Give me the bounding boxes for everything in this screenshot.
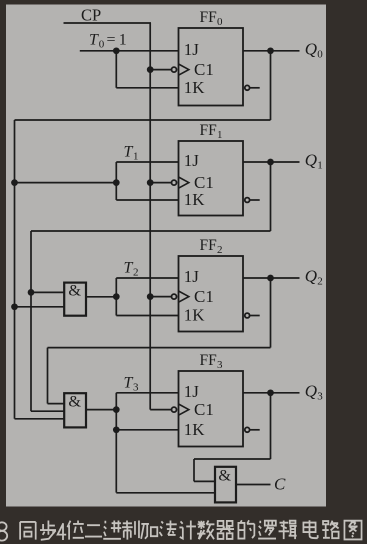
caption glyph 数: [197, 521, 214, 540]
wire AND1 input upper: [31, 291, 64, 293]
caption glyph 电: [303, 520, 317, 538]
svg-text:1J: 1J: [184, 40, 200, 59]
flip-flop FF3 box: [179, 371, 244, 447]
flip-flop FF0 box: [179, 28, 244, 106]
svg-text:0: 0: [99, 39, 105, 51]
wire FF1 Q output: [243, 161, 300, 163]
FF2 clock inversion bubble: [172, 294, 177, 299]
caption glyph 路: [322, 521, 338, 538]
wire C-gate output: [236, 484, 271, 486]
wire T0 input to FF0 1J: [80, 50, 179, 52]
svg-text:1J: 1J: [184, 267, 200, 286]
wire AND2 input top: [48, 403, 65, 405]
wire FF3 1J input: [116, 392, 178, 394]
FF0 clock inversion bubble: [172, 67, 177, 72]
wire FF2 feedback horizontal: [48, 347, 271, 349]
wire AND1 output to T2: [86, 296, 116, 298]
wire FF2 Q feedback vertical: [270, 278, 272, 348]
caption glyph 二: [85, 525, 102, 536]
wire FF0 1K input: [116, 87, 178, 89]
FF0 Qbar bubble: [245, 85, 250, 90]
node T2 branch: [113, 293, 120, 300]
node CP-FF0: [147, 66, 154, 73]
FF1 clock edge triangle: [179, 177, 189, 188]
node Q3 output: [267, 389, 274, 396]
wire C-gate input upper: [194, 480, 215, 482]
svg-text:1J: 1J: [184, 151, 200, 170]
caption digit 4: [58, 523, 67, 540]
FF3 clock inversion bubble: [172, 407, 177, 412]
svg-text:Q: Q: [305, 151, 317, 170]
wire FF2 Qbar stub: [250, 315, 260, 317]
svg-text:0: 0: [217, 16, 223, 28]
wire FF0 J-K connector: [115, 51, 117, 88]
svg-text:Q: Q: [305, 40, 317, 59]
svg-text:2: 2: [133, 267, 139, 279]
AND gate G2 box: [64, 393, 86, 427]
caption glyph 逻: [258, 521, 276, 539]
wire FF1 1K input: [116, 199, 178, 201]
wire FF3 1K input: [116, 429, 178, 431]
svg-text:C1: C1: [194, 287, 214, 306]
wire FF1 1J input: [116, 161, 178, 163]
svg-text:T: T: [89, 32, 99, 49]
node bus1-AND1: [28, 289, 35, 296]
wire FF2 J-K connector: [115, 278, 117, 316]
FF1 clock inversion bubble: [172, 180, 177, 185]
wire CP stub to FF0 clock: [150, 69, 171, 71]
wire T1 feed: [15, 182, 117, 184]
wire FF0 Qbar stub: [250, 87, 260, 89]
svg-text:1J: 1J: [184, 382, 200, 401]
wire FF0 Q feedback vertical: [270, 51, 272, 120]
FF2 clock edge triangle: [179, 291, 189, 302]
node T1 branch: [113, 179, 120, 186]
svg-text:= 1: = 1: [107, 32, 127, 49]
caption glyph 法: [159, 521, 176, 536]
node CP-FF1: [147, 179, 154, 186]
wire AND2 output to T3: [86, 409, 116, 411]
node Q1 output: [267, 159, 274, 166]
caption glyph 器: [217, 521, 234, 539]
caption glyph 图: [344, 521, 361, 540]
wire AND2 input middle: [31, 410, 64, 412]
node bus-T1: [11, 179, 18, 186]
svg-text:T: T: [124, 144, 134, 161]
caption glyph 进: [103, 521, 121, 539]
wire FF3 T connector vertical: [115, 393, 117, 493]
wire FF3 feedback drop: [193, 459, 195, 481]
caption glyph 制: [122, 521, 139, 540]
wire FF1 Qbar stub: [250, 199, 260, 201]
wire CP stub to FF2 clock: [150, 296, 171, 298]
wire FF0 Q output: [243, 50, 300, 52]
svg-text:T: T: [124, 260, 134, 277]
caption glyph 辑: [279, 521, 297, 540]
svg-text:0: 0: [317, 49, 323, 61]
svg-text:T: T: [124, 374, 134, 391]
wire CP horizontal: [64, 22, 152, 24]
wire FF2 1K input: [116, 315, 178, 317]
svg-text:&: &: [218, 466, 231, 485]
caption glyph 位: [67, 521, 84, 540]
svg-text:3: 3: [317, 391, 323, 403]
node T3 branch: [113, 406, 120, 413]
node T0 branch: [113, 47, 120, 54]
svg-text:1: 1: [133, 151, 139, 163]
svg-text:1: 1: [217, 129, 223, 141]
svg-text:3: 3: [217, 359, 223, 371]
wire FF3 Q output: [243, 392, 300, 394]
svg-text:Q: Q: [305, 267, 317, 286]
caption strip: [20, 520, 361, 539]
caption digit 8: [0, 522, 7, 540]
svg-text:1K: 1K: [184, 78, 206, 97]
svg-text:&: &: [68, 281, 81, 300]
svg-text:2: 2: [317, 276, 323, 288]
svg-text:FF: FF: [200, 9, 218, 26]
wire Q0 left bus: [14, 120, 16, 419]
svg-text:1K: 1K: [184, 306, 206, 325]
node Q0 output: [267, 47, 274, 54]
caption glyph 的: [238, 520, 254, 538]
wire FF3 feedback horizontal: [194, 458, 271, 460]
wire Q1 left bus: [30, 231, 32, 411]
node CP-FF2: [147, 293, 154, 300]
caption glyph 加: [141, 524, 157, 539]
svg-text:FF: FF: [200, 352, 218, 369]
AND gate G3 box (carry): [215, 467, 236, 503]
wire CP vertical bus: [149, 23, 151, 410]
wire FF1 Q feedback vertical: [270, 162, 272, 231]
svg-text:CP: CP: [81, 5, 101, 24]
AND gate G1 box: [64, 283, 86, 316]
svg-text:C1: C1: [194, 60, 214, 79]
node bus0-AND1: [11, 303, 18, 310]
wire CP stub to FF1 clock: [150, 182, 171, 184]
caption glyph 计: [179, 521, 196, 540]
wire FF1 feedback horizontal: [31, 230, 271, 232]
svg-text:1K: 1K: [184, 190, 206, 209]
svg-text:Q: Q: [305, 382, 317, 401]
wire Q2 left bus: [47, 348, 49, 404]
FF1 Qbar bubble: [245, 198, 250, 203]
svg-text:C: C: [274, 474, 286, 493]
FF3 Qbar bubble: [245, 427, 250, 432]
wire FF2 Q output: [243, 277, 300, 279]
caption glyph 步: [40, 521, 56, 540]
wire FF2 1J input: [116, 277, 178, 279]
svg-text:FF: FF: [200, 237, 218, 254]
svg-text:1K: 1K: [184, 420, 206, 439]
FF0 clock edge triangle: [179, 64, 189, 75]
svg-text:FF: FF: [200, 122, 218, 139]
flip-flop FF1 box: [179, 141, 244, 216]
wire AND2 input bottom: [15, 418, 65, 420]
node T3-1K branch: [113, 426, 120, 433]
wire FF3 Qbar stub: [250, 429, 260, 431]
wire FF0 feedback horizontal: [15, 119, 271, 121]
svg-text:1: 1: [317, 160, 323, 172]
caption glyph 同: [20, 522, 36, 540]
FF2 Qbar bubble: [245, 313, 250, 318]
wire FF3 Q feedback vertical: [270, 393, 272, 459]
flip-flop FF2 box: [179, 256, 244, 332]
svg-text:3: 3: [133, 382, 139, 394]
wire FF1 J-K connector: [115, 162, 117, 200]
svg-text:&: &: [68, 392, 81, 411]
wire AND1 input lower: [15, 306, 65, 308]
wire C-gate input lower: [116, 492, 215, 494]
FF3 clock edge triangle: [179, 404, 189, 415]
wire CP stub to FF3 clock: [150, 409, 171, 411]
node Q2 output: [267, 275, 274, 282]
svg-text:2: 2: [217, 244, 223, 256]
svg-text:C1: C1: [194, 400, 214, 419]
